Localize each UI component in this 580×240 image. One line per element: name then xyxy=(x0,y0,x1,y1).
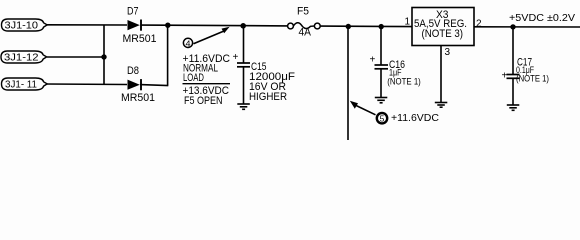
svg-text:+: + xyxy=(233,52,239,63)
node junction dot +11.6VDC tap xyxy=(346,24,351,29)
wire fuse to X3 pin 1 xyxy=(320,25,412,28)
connector tag 3J1-11 xyxy=(2,78,48,91)
wire D8 cathode to vertical riser xyxy=(140,85,168,86)
svg-text:2: 2 xyxy=(476,19,482,30)
node junction dot C16 tap xyxy=(379,24,384,29)
svg-text:(NOTE 1): (NOTE 1) xyxy=(516,74,549,84)
svg-text:+: + xyxy=(502,71,508,82)
ground below C16 xyxy=(375,98,388,103)
capacitor C16 xyxy=(370,55,421,87)
wire C15 branch upper xyxy=(243,26,245,63)
svg-text:3J1-10: 3J1-10 xyxy=(5,21,39,32)
wire vertical riser x=160 xyxy=(167,25,169,85)
wire 3J1-11 row to D8 anode xyxy=(46,83,127,86)
wire vertical tie x=104 xyxy=(103,25,105,84)
svg-text:(NOTE 3): (NOTE 3) xyxy=(422,28,464,40)
wire X3 pin 2 to right edge xyxy=(474,26,580,28)
svg-text:D8: D8 xyxy=(127,65,139,77)
svg-text:(NOTE 1): (NOTE 1) xyxy=(387,76,421,86)
node junction dot at 3J1-12 tie xyxy=(101,54,106,59)
node annotation +11.6VDC normal load text block xyxy=(183,53,231,107)
wire top bus left of D7 xyxy=(47,24,128,26)
svg-text:4: 4 xyxy=(186,38,191,48)
svg-text:F5 OPEN: F5 OPEN xyxy=(184,95,223,107)
svg-text:3J1-12: 3J1-12 xyxy=(4,53,39,64)
node callout circled 5 +11.6VDC xyxy=(350,101,439,124)
capacitor C17 xyxy=(502,57,550,84)
ground below C17 xyxy=(507,105,520,110)
wire C15 branch lower xyxy=(243,67,245,104)
wire C16 branch lower xyxy=(380,69,382,97)
svg-text:3: 3 xyxy=(445,47,451,58)
wire C16 branch upper xyxy=(380,27,382,65)
wire X3 pin 3 drop xyxy=(440,46,442,103)
svg-text:4A: 4A xyxy=(299,27,312,39)
svg-text:+: + xyxy=(370,55,376,66)
svg-text:F5: F5 xyxy=(297,6,309,18)
svg-text:MR501: MR501 xyxy=(123,33,157,45)
ground below X3 pin 3 xyxy=(435,103,448,108)
connector tag 3J1-12 xyxy=(1,51,47,64)
diode D8 xyxy=(121,65,155,104)
svg-text:MR501: MR501 xyxy=(121,92,155,104)
node junction dot C17 tap xyxy=(510,24,515,29)
svg-text:5: 5 xyxy=(380,114,385,124)
svg-text:+11.6VDC: +11.6VDC xyxy=(391,113,439,124)
svg-text:HIGHER: HIGHER xyxy=(249,91,287,103)
svg-text:3J1- 11: 3J1- 11 xyxy=(5,80,37,91)
wire C17 branch lower xyxy=(512,78,514,105)
regulator X3 box xyxy=(412,8,474,46)
wire +11.6VDC net drop x=347 xyxy=(347,26,349,140)
fuse F5 xyxy=(288,6,321,39)
svg-text:LOAD: LOAD xyxy=(183,72,204,84)
node callout circled 4 xyxy=(183,27,229,49)
ground below C15 xyxy=(237,104,250,109)
wire C17 branch upper xyxy=(512,27,514,74)
svg-text:+5VDC ±0.2V: +5VDC ±0.2V xyxy=(509,13,575,24)
svg-text:D7: D7 xyxy=(127,5,139,17)
wire 3J1-12 row xyxy=(47,56,104,58)
diode D7 xyxy=(123,5,157,45)
wire top bus D7 cathode to fuse xyxy=(141,24,288,27)
svg-text:1: 1 xyxy=(405,17,411,28)
node junction dot riser top xyxy=(165,23,170,28)
capacitor C15 xyxy=(233,52,296,103)
node junction dot C15 tap xyxy=(240,23,246,29)
connector tag 3J1-10 xyxy=(2,19,48,32)
